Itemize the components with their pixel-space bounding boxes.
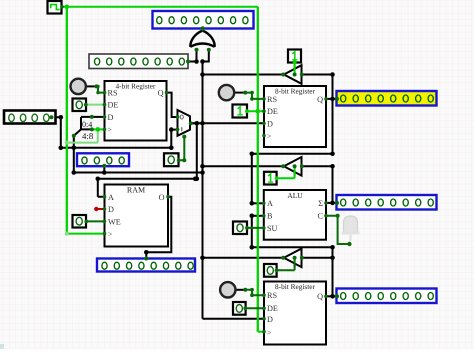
svg-text:>: > [267, 328, 271, 337]
svg-text:D: D [267, 119, 273, 128]
pin O5 (buffer U3 enable) [264, 264, 279, 277]
node MAR column top [195, 121, 200, 126]
node RAM D error end [94, 207, 98, 211]
register IR1 4-bit Register [103, 81, 169, 141]
wire RS jog register A [245, 93, 263, 99]
node clock branch junction [65, 5, 70, 10]
wire RS jog register B [245, 290, 263, 295]
node row y=148 right end [169, 146, 174, 151]
wire RS jog 4-bit register [97, 86, 104, 92]
node clock-DE junction register A [255, 109, 260, 114]
wire RAM address row y=179 [98, 178, 197, 180]
pin P2 constant 1 (buffer U1 enable) [288, 50, 301, 65]
node sigma column top [330, 164, 335, 169]
svg-text:DE: DE [267, 304, 278, 313]
svg-text:>: > [267, 132, 271, 141]
node RAM address row right [193, 177, 198, 182]
node input pin column top [59, 115, 64, 120]
node RS jog corners register A [250, 91, 254, 95]
node RS jog corners 4-bit register [96, 85, 99, 88]
wire buffer U1 input from register A Q column [301, 75, 332, 100]
node splitter main end [72, 134, 76, 138]
wire MUX select [179, 136, 185, 160]
canvas corner artifact bottom-left [0, 344, 4, 349]
wire ALU B feed vertical [251, 216, 253, 248]
wire crossover row y=154 [252, 153, 333, 155]
wire RAM O output to bottom-center probe [146, 197, 171, 259]
node MUX select entry [182, 135, 186, 139]
probe PR1 bus value (top, blue) [153, 11, 254, 30]
button S1 (4-bit register RS) [71, 79, 86, 94]
wire WE input RAM [86, 220, 103, 222]
probe PR2 memory address (blue 4) [77, 153, 129, 168]
wire clock to register B clock pin [258, 331, 264, 333]
node button 4-bit output [95, 84, 99, 88]
wire to ALU A pin [252, 202, 263, 204]
node clock jog junction [96, 127, 101, 132]
node bus-address row [200, 170, 205, 175]
probe PR4 register A value (yellow) [335, 91, 437, 106]
wire bus to D pin of bottom register [203, 318, 264, 320]
node splitter column crossing [72, 146, 77, 151]
ram RAM1 [103, 185, 170, 247]
wire splitter fan lines [74, 117, 92, 136]
led D1 ghost [342, 216, 360, 241]
alu ALU1 [262, 190, 328, 240]
wire address bus row y=172.5 [74, 172, 203, 174]
svg-text:A: A [267, 199, 273, 208]
button S3 (register B RS) [220, 282, 235, 297]
wire button stub 4-bit register [86, 85, 96, 87]
svg-text:RS: RS [108, 89, 118, 98]
probe PR6 register B value (blue) [335, 289, 437, 304]
node crossover left y=154 [250, 152, 255, 157]
node splitter end upper [90, 127, 94, 131]
wire row y=148 under 4-bit register [61, 147, 172, 149]
svg-text:D: D [108, 205, 114, 214]
wire bus to buffer U3 output row y=258 [203, 257, 284, 259]
wire MUX output stub [191, 122, 197, 124]
tri-state buffer U1 [281, 65, 304, 84]
svg-text:WE: WE [108, 217, 121, 226]
wire splitter main vertical x=74 [73, 136, 75, 173]
node buffer U3 input column [330, 255, 335, 260]
probe PR3 RAM output (blue 8) [97, 257, 195, 272]
svg-text:D: D [267, 315, 273, 324]
wire register B Q column lower [332, 258, 334, 297]
wire bus to buffer U2 output row y=166 [203, 165, 284, 167]
wire bus to tri-state buffer U1 output row y=74 [203, 74, 284, 76]
node crossover right y=154 [330, 152, 335, 157]
wire clock branch to 4-bit register clock (pale) [67, 130, 98, 143]
node RAM output corner [144, 250, 149, 255]
node button A output [243, 91, 247, 95]
node Q column / yellow probe [330, 97, 335, 102]
svg-text:B: B [267, 212, 273, 221]
wire down to RAM A pin [98, 179, 104, 197]
svg-text:Q: Q [158, 89, 164, 98]
svg-text:0:4: 0:4 [82, 120, 92, 129]
or-gate G1 [190, 25, 214, 51]
pin row PIN8A 8-bit input (gray box) [89, 54, 190, 69]
wire clock to RAM clock pin [67, 233, 104, 235]
svg-text:D: D [108, 113, 114, 122]
svg-text:4-bit Register: 4-bit Register [116, 82, 156, 91]
svg-text:Q: Q [317, 292, 323, 301]
clock CLK1 [48, 1, 64, 14]
wire DE input register A (high) [247, 110, 263, 112]
wire buffer U3 enable [277, 258, 295, 271]
pin P1 constant 1 (register A DE) [233, 105, 249, 118]
node bus-D row register A [200, 121, 205, 126]
svg-text:4:8: 4:8 [82, 131, 94, 141]
node bus-buffer U3 row [200, 255, 205, 260]
svg-text:Σ: Σ [318, 199, 323, 208]
node bus-buffer U2 row [200, 164, 205, 169]
node splitter end lower [90, 115, 94, 119]
wire ALU A feed vertical x=252 [251, 154, 253, 204]
svg-text:C: C [318, 212, 324, 221]
wire SU input ALU [247, 227, 263, 229]
node clock RAM corner [65, 232, 69, 236]
wire ALU sigma output to middle probe [326, 202, 337, 204]
svg-text:SU: SU [267, 224, 278, 233]
node B feed bottom left [250, 245, 255, 250]
wire to ALU B pin [252, 215, 263, 217]
svg-text:DE: DE [108, 101, 119, 110]
wire splitter lower end to register D pin [92, 116, 104, 118]
wire DE input 4-bit register [86, 104, 104, 106]
wire clock net vertical x=67 [66, 7, 68, 234]
svg-text:Q: Q [317, 95, 323, 104]
wire register B Q column upper [332, 247, 334, 257]
wire register B feed row y=247 [252, 246, 333, 248]
node register B Q junction [330, 294, 335, 299]
wire register A Q output to yellow probe [326, 98, 337, 100]
svg-text:ALU: ALU [287, 191, 303, 200]
wire Q column down to crossover row y=154 [332, 99, 334, 154]
node MUX 1 wire corner [169, 127, 174, 132]
node ALU A junction [250, 201, 255, 206]
svg-text:RS: RS [267, 291, 277, 300]
svg-text:O: O [159, 193, 165, 202]
node LED wire corner [336, 214, 340, 218]
pin O2 (MUX select) [164, 153, 181, 166]
wire input pin stub to column x=61 [56, 117, 61, 148]
pin row PIN4A 4-bit input (black box) [4, 111, 56, 124]
wire sigma column down [332, 166, 334, 203]
node probe stub junction [102, 170, 107, 175]
node MUX select corner [182, 158, 186, 162]
node buffer U1 wire corner [330, 72, 335, 77]
multiplexer MUX1 [176, 110, 193, 136]
splitter SP1 labels [82, 120, 94, 141]
wire OR gate right input stub [202, 50, 209, 62]
node ALU B junction [250, 214, 255, 219]
node RS jog corners register B [250, 288, 254, 292]
wire RAM D error stub [96, 208, 103, 210]
node bus top junction [200, 59, 205, 64]
wire DE input register B [245, 307, 263, 309]
pin O1 (4-bit DE) [73, 99, 88, 112]
node input pin column bottom [59, 146, 64, 151]
wire probe connector stub x=104 [103, 166, 105, 173]
wire 4-bit register Q to MUX input 0 [167, 93, 177, 117]
register B1 8-bit Register bottom [262, 282, 328, 345]
wire button stub register B [236, 289, 246, 291]
pin P3 constant 1 (buffer U2 enable) [264, 172, 279, 185]
svg-text:RS: RS [267, 95, 277, 104]
button S2 (register A RS) [219, 85, 234, 100]
svg-text:DE: DE [267, 107, 278, 116]
pin O3 (RAM WE) [73, 215, 89, 228]
node button B output [243, 288, 247, 292]
wire main bus vertical x=202 [202, 62, 204, 319]
svg-text:8-bit Register: 8-bit Register [275, 87, 315, 96]
wire up to MUX input 1 [171, 130, 176, 148]
pin O4 (ALU SU) [233, 222, 249, 235]
wire register B Q output to bottom probe [326, 295, 337, 297]
svg-text:>: > [108, 230, 112, 239]
node address row left end [72, 170, 77, 175]
node RAM address row left [96, 177, 101, 182]
register A1 8-bit Register top [262, 86, 328, 147]
node B feed bottom right [330, 245, 335, 250]
tri-state buffer U2 [281, 157, 304, 176]
wire splitter upper end to clock pin row [92, 128, 104, 130]
wire clock net vertical x=258 [257, 7, 259, 332]
node sigma probe junction [330, 201, 335, 206]
wire OR gate left input stub to pin row probe [188, 50, 197, 62]
tri-state buffer U3 [281, 249, 304, 268]
svg-text:>: > [108, 125, 112, 134]
node LED pin [347, 242, 351, 246]
node clock branch pale junction [65, 141, 69, 145]
node OR left stub corner [194, 59, 199, 64]
wire MAR column x=197 [196, 123, 198, 179]
wire bus to register A D pin row y=123 [191, 122, 263, 124]
probe PR5 ALU sigma value (blue) [335, 195, 437, 210]
wire button stub register A [234, 92, 245, 94]
wire clock net horizontal top [62, 6, 258, 8]
wire buffer U3 input segment [301, 257, 332, 259]
svg-text:8-bit Register: 8-bit Register [275, 282, 315, 291]
wire buffer U1 enable [294, 62, 296, 74]
wire buffer U2 enable [277, 166, 295, 178]
wire ALU carry to LED [326, 216, 349, 244]
wire buffer U2 input segment [301, 165, 332, 167]
pin O6 (register B DE) [233, 302, 247, 315]
svg-text:RAM: RAM [127, 186, 145, 195]
node bus-buffer U1 row [200, 72, 205, 77]
svg-text:A: A [108, 193, 114, 202]
